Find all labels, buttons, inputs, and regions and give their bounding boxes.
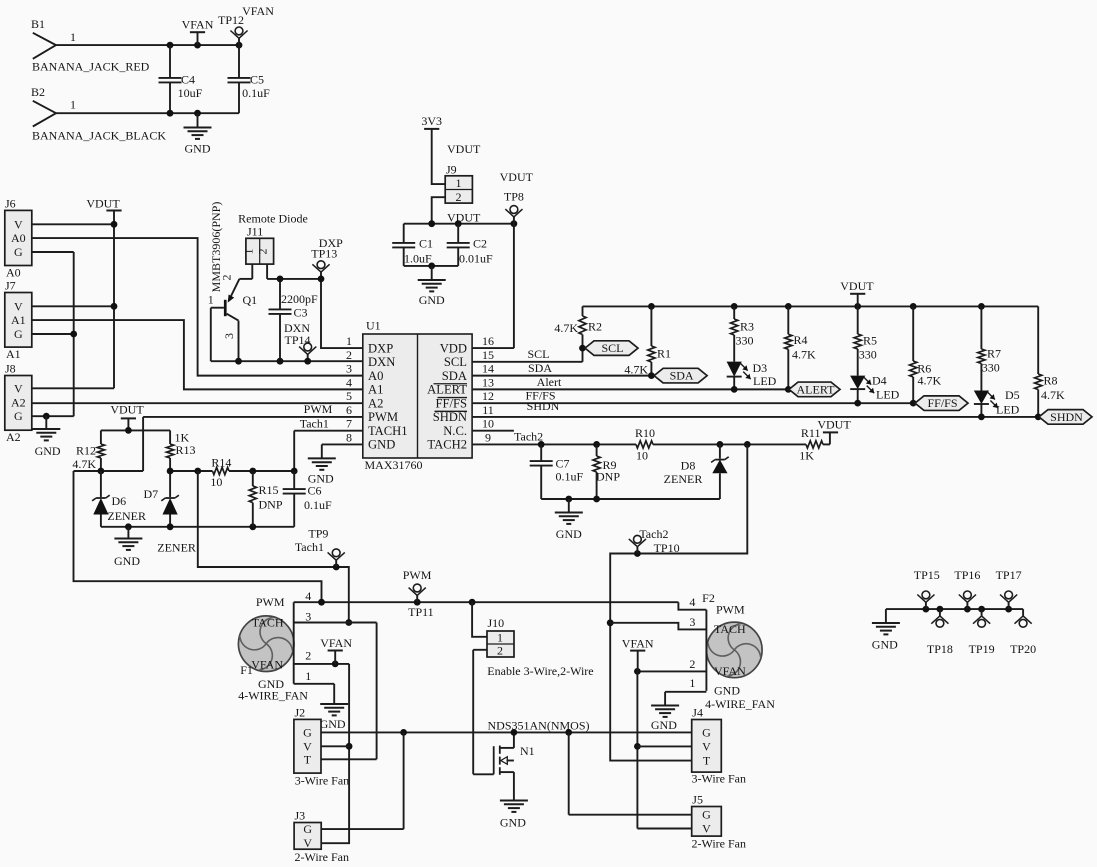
capacitor C3	[269, 279, 319, 361]
test point TP8	[500, 170, 534, 224]
svg-text:V: V	[702, 822, 711, 836]
svg-text:2: 2	[220, 275, 234, 281]
wire TACH2	[472, 429, 830, 448]
svg-text:VFAN: VFAN	[320, 636, 352, 650]
svg-text:G: G	[303, 822, 312, 836]
svg-text:G: G	[702, 808, 711, 822]
svg-text:TP16: TP16	[954, 568, 980, 582]
svg-text:BANANA_JACK_BLACK: BANANA_JACK_BLACK	[32, 129, 166, 143]
svg-text:3: 3	[222, 333, 236, 339]
svg-text:SDA: SDA	[442, 369, 467, 383]
resistor R5	[854, 306, 877, 375]
resistor R2	[554, 306, 602, 348]
svg-text:VFAN: VFAN	[182, 17, 214, 31]
wire Tach2 to TP10 F2 J4T	[607, 444, 748, 760]
svg-text:R1: R1	[657, 347, 671, 361]
svg-text:4.7K: 4.7K	[72, 457, 96, 471]
connector J10	[472, 602, 594, 678]
svg-text:1: 1	[456, 176, 462, 190]
connector J11	[242, 224, 274, 279]
svg-text:8: 8	[346, 430, 352, 444]
wire VDUT rail C1 C2 TP8	[404, 220, 518, 227]
svg-text:4.7K: 4.7K	[554, 321, 578, 335]
svg-text:11: 11	[482, 403, 494, 417]
svg-text:BANANA_JACK_RED: BANANA_JACK_RED	[32, 60, 150, 74]
svg-text:R5: R5	[863, 334, 877, 348]
svg-text:4: 4	[689, 595, 695, 609]
wire ALERT	[472, 375, 792, 393]
svg-text:7: 7	[346, 417, 352, 431]
resistor R11	[799, 426, 823, 463]
connector J6	[5, 197, 32, 280]
svg-text:B2: B2	[31, 85, 45, 99]
connector J2	[294, 705, 349, 787]
svg-text:GND: GND	[35, 444, 61, 458]
wire PWM to fans	[74, 471, 707, 610]
resistor R10	[635, 426, 655, 463]
svg-text:GND: GND	[872, 638, 898, 652]
connector J9	[445, 142, 481, 204]
wire FFFS	[472, 389, 916, 407]
svg-text:D7: D7	[144, 487, 159, 501]
capacitor C6	[283, 471, 332, 527]
svg-text:GND: GND	[308, 472, 334, 486]
svg-text:2: 2	[305, 649, 311, 663]
svg-text:R3: R3	[740, 320, 754, 334]
svg-text:1: 1	[497, 630, 503, 644]
label MMBT3906(PNP)	[209, 202, 223, 293]
svg-text:G: G	[14, 327, 23, 341]
svg-text:4-WIRE_FAN: 4-WIRE_FAN	[705, 697, 775, 711]
test point TP11	[403, 568, 434, 619]
svg-text:VDUT: VDUT	[840, 279, 874, 293]
wire G bus	[32, 252, 77, 420]
svg-text:14: 14	[482, 362, 494, 376]
svg-text:LED: LED	[996, 403, 1020, 417]
svg-text:V: V	[14, 217, 23, 231]
svg-text:2: 2	[497, 643, 503, 657]
svg-text:A0: A0	[11, 231, 26, 245]
svg-text:R7: R7	[987, 347, 1001, 361]
svg-text:Enable 3-Wire,2-Wire: Enable 3-Wire,2-Wire	[487, 664, 593, 678]
wire TP9 to fan	[198, 471, 352, 626]
svg-text:C2: C2	[473, 237, 487, 251]
LED D4	[850, 374, 900, 404]
svg-text:N1: N1	[520, 744, 535, 758]
svg-text:SHDN: SHDN	[1050, 410, 1083, 424]
svg-text:R14: R14	[211, 455, 231, 469]
svg-text:R13: R13	[176, 443, 196, 457]
net flag SHDN	[1039, 410, 1092, 425]
svg-text:C3: C3	[294, 306, 308, 320]
capacitor C4	[159, 45, 203, 113]
label Remote Diode	[238, 212, 308, 226]
svg-text:4.7K: 4.7K	[1041, 388, 1065, 402]
svg-text:9: 9	[485, 430, 491, 444]
capacitor C5	[228, 45, 271, 113]
resistor R14	[167, 455, 295, 489]
svg-text:VDUT: VDUT	[817, 418, 851, 432]
svg-text:TP14: TP14	[284, 333, 310, 347]
svg-text:Tach1: Tach1	[300, 417, 329, 431]
wire F1 GND	[294, 684, 335, 704]
connector J5	[692, 793, 747, 851]
transistor N1 NMOS	[473, 650, 589, 800]
power flag VDUT left	[86, 197, 121, 211]
svg-text:330: 330	[859, 348, 877, 362]
svg-text:2-Wire Fan: 2-Wire Fan	[295, 850, 350, 864]
svg-text:C1: C1	[419, 237, 433, 251]
svg-text:J6: J6	[5, 197, 16, 211]
svg-text:A1: A1	[11, 313, 26, 327]
svg-text:D4: D4	[872, 374, 887, 388]
svg-text:J2: J2	[295, 705, 306, 719]
svg-text:GND: GND	[556, 527, 582, 541]
svg-text:1: 1	[346, 334, 352, 348]
svg-text:TACH2: TACH2	[427, 438, 467, 452]
svg-text:G: G	[14, 245, 23, 259]
svg-text:SDA: SDA	[528, 361, 552, 375]
test point TP18	[927, 609, 953, 656]
svg-text:R4: R4	[794, 333, 808, 347]
svg-text:C6: C6	[308, 484, 322, 498]
svg-text:2: 2	[456, 190, 462, 204]
svg-text:SDA: SDA	[670, 369, 694, 383]
power flag 3V3	[421, 114, 442, 129]
resistor R13	[167, 430, 196, 471]
svg-text:TP9: TP9	[308, 527, 328, 541]
svg-text:VDUT: VDUT	[447, 210, 481, 224]
svg-text:TP15: TP15	[914, 568, 940, 582]
svg-text:LED: LED	[753, 374, 777, 388]
svg-text:1: 1	[70, 98, 76, 112]
net flag SDA	[654, 368, 707, 383]
svg-text:D6: D6	[112, 494, 127, 508]
svg-text:4.7K: 4.7K	[792, 347, 816, 361]
svg-text:0.1uF: 0.1uF	[556, 470, 584, 484]
svg-text:12: 12	[482, 389, 494, 403]
wire B1 to VFAN rail	[56, 42, 242, 49]
svg-text:GND: GND	[651, 718, 677, 732]
svg-text:SCL: SCL	[444, 355, 467, 369]
wire Tach2 to F2 pin3	[610, 623, 706, 630]
svg-text:6: 6	[346, 403, 352, 417]
svg-text:Tach1: Tach1	[295, 540, 324, 554]
svg-text:D8: D8	[681, 459, 696, 473]
svg-text:U1: U1	[366, 319, 381, 333]
svg-text:DNP: DNP	[596, 470, 620, 484]
wire VDUT to R12 R13	[101, 427, 170, 434]
svg-text:TP18: TP18	[927, 642, 953, 656]
svg-text:10: 10	[482, 417, 494, 431]
svg-text:ZENER: ZENER	[107, 509, 146, 523]
svg-text:A1: A1	[6, 347, 21, 361]
ground GND below C1 C2	[418, 266, 446, 307]
wire TACH1	[291, 417, 363, 475]
svg-text:4.7K: 4.7K	[918, 373, 942, 387]
svg-text:Tach2: Tach2	[639, 527, 668, 541]
svg-text:MAX31760: MAX31760	[365, 458, 423, 472]
svg-text:Q1: Q1	[243, 293, 258, 307]
fan F1	[238, 589, 311, 703]
svg-text:330: 330	[982, 361, 1000, 375]
connector J7	[5, 279, 32, 362]
svg-text:1: 1	[70, 30, 76, 44]
svg-text:5: 5	[346, 389, 352, 403]
svg-text:VDD: VDD	[440, 341, 467, 355]
connector B1 banana jack	[31, 17, 150, 74]
test point TP20	[1010, 609, 1036, 656]
svg-text:R2: R2	[588, 320, 602, 334]
label VDUT above rail	[447, 210, 481, 224]
diode D8 ZENER	[664, 444, 729, 499]
svg-text:C5: C5	[250, 73, 264, 87]
svg-text:R15: R15	[259, 483, 279, 497]
ground GND TP bus	[872, 623, 900, 652]
svg-text:TACH: TACH	[714, 622, 746, 636]
wire J3 G	[321, 732, 403, 829]
transistor Q1	[208, 275, 257, 362]
ground GND N1	[500, 801, 528, 830]
svg-text:TP12: TP12	[218, 13, 244, 27]
test point TP12	[218, 4, 274, 45]
svg-text:GND: GND	[368, 438, 395, 452]
svg-text:SHDN: SHDN	[433, 410, 467, 424]
wire VDUT to V pins	[32, 211, 118, 389]
svg-text:DXN: DXN	[368, 355, 395, 369]
test point TP13	[311, 236, 343, 279]
svg-text:2-Wire Fan: 2-Wire Fan	[692, 837, 747, 851]
resistor R12	[72, 430, 104, 471]
svg-text:10: 10	[210, 475, 222, 489]
svg-text:4: 4	[305, 589, 311, 603]
svg-text:0.1uF: 0.1uF	[242, 86, 270, 100]
svg-text:1.0uF: 1.0uF	[404, 251, 432, 265]
wire C7 R9 D8 ground	[541, 496, 720, 503]
svg-text:VDUT: VDUT	[86, 197, 120, 211]
ground GND below D6	[114, 527, 142, 568]
svg-text:A2: A2	[11, 395, 26, 409]
svg-text:V: V	[303, 739, 312, 753]
svg-text:ZENER: ZENER	[157, 541, 196, 555]
svg-text:10: 10	[636, 449, 648, 463]
svg-text:VFAN: VFAN	[242, 4, 274, 18]
svg-text:J9: J9	[446, 163, 457, 177]
ground GND below C4 C5	[184, 113, 212, 155]
fan F2	[689, 591, 775, 711]
wire B2 to C5	[56, 110, 239, 117]
svg-text:VFAN: VFAN	[622, 637, 654, 651]
wire VDUT rail pullups	[583, 303, 1039, 310]
svg-text:4.7K: 4.7K	[624, 363, 648, 377]
svg-text:1K: 1K	[799, 449, 814, 463]
capacitor C7	[530, 444, 584, 499]
svg-text:1: 1	[305, 669, 311, 683]
net flag ALERT	[789, 382, 840, 397]
svg-text:2: 2	[346, 348, 352, 362]
svg-text:A1: A1	[368, 383, 383, 397]
svg-text:A0: A0	[6, 266, 21, 280]
ground GND below J8	[32, 416, 61, 458]
svg-text:R8: R8	[1044, 374, 1058, 388]
svg-text:D3: D3	[753, 361, 768, 375]
power flag VFAN F2	[622, 637, 654, 672]
svg-text:PWM: PWM	[304, 402, 333, 416]
svg-text:1: 1	[208, 293, 214, 307]
svg-text:FF/FS: FF/FS	[435, 396, 467, 410]
svg-text:NDS351AN(NMOS): NDS351AN(NMOS)	[488, 719, 590, 733]
wire J9 pin2 to VDUT rail	[432, 197, 446, 224]
svg-text:VFAN: VFAN	[714, 664, 746, 678]
svg-text:PWM: PWM	[716, 602, 745, 616]
resistor R4	[785, 306, 816, 389]
svg-text:J8: J8	[5, 362, 16, 376]
svg-text:FF/FS: FF/FS	[927, 396, 957, 410]
svg-text:J11: J11	[247, 224, 263, 238]
svg-text:3: 3	[346, 362, 352, 376]
svg-text:C7: C7	[556, 457, 570, 471]
resistor R7	[978, 306, 1001, 390]
svg-text:330: 330	[736, 334, 754, 348]
wire SDA	[472, 361, 655, 379]
wire NC stub	[472, 430, 514, 432]
svg-text:2: 2	[689, 657, 695, 671]
wire F1 VFAN	[294, 661, 349, 668]
svg-text:J3: J3	[295, 809, 306, 823]
test point TP10	[629, 527, 680, 555]
svg-text:V: V	[14, 299, 23, 313]
svg-text:1: 1	[689, 676, 695, 690]
test point TP9	[295, 527, 345, 568]
wire A1	[32, 320, 363, 389]
ground GND U1 pin8	[308, 444, 363, 485]
svg-text:G: G	[702, 725, 711, 739]
connector J4	[692, 706, 747, 786]
wire C1 C2 ground	[404, 263, 459, 270]
svg-text:GND: GND	[500, 816, 526, 830]
wire SCL	[472, 345, 586, 362]
svg-text:TP8: TP8	[504, 190, 524, 204]
svg-text:TP10: TP10	[654, 541, 680, 555]
test point TP17	[996, 568, 1022, 609]
svg-text:GND: GND	[185, 142, 211, 156]
connector J8	[5, 362, 32, 445]
net flag SCL	[585, 341, 638, 356]
wire VFAN to J2 J3	[321, 664, 353, 843]
svg-text:13: 13	[482, 375, 494, 389]
svg-text:VDUT: VDUT	[110, 403, 144, 417]
svg-text:1: 1	[242, 249, 256, 255]
svg-text:J4: J4	[692, 706, 703, 720]
svg-text:T: T	[703, 754, 711, 768]
test point TP19	[969, 609, 995, 656]
power flag VDUT R12	[110, 403, 144, 431]
svg-text:16: 16	[482, 334, 494, 348]
svg-text:VDUT: VDUT	[500, 170, 534, 184]
svg-text:VDUT: VDUT	[447, 142, 481, 156]
power flag VDUT R11	[817, 418, 851, 433]
power flag VFAN	[182, 17, 214, 45]
svg-text:J7: J7	[5, 279, 16, 293]
wire D6 D7 R15 C6 ground	[101, 523, 294, 530]
svg-text:G: G	[14, 409, 23, 423]
wire fan ground rail	[321, 729, 692, 736]
svg-text:R12: R12	[76, 444, 96, 458]
svg-text:N.C.: N.C.	[443, 424, 467, 438]
test point TP16	[954, 568, 980, 609]
wire F1 tach to J2 T	[294, 623, 377, 760]
svg-text:4: 4	[346, 375, 352, 389]
svg-text:A2: A2	[368, 396, 383, 410]
svg-text:Alert: Alert	[537, 375, 562, 389]
wire DXN	[211, 358, 363, 365]
wire VFAN to J4 J5	[634, 671, 692, 828]
svg-text:LED: LED	[876, 388, 900, 402]
test point TP14	[284, 321, 316, 361]
resistor R8	[1035, 306, 1065, 417]
svg-text:G: G	[303, 725, 312, 739]
wire A0	[32, 238, 363, 376]
svg-text:D5: D5	[1005, 388, 1020, 402]
svg-text:J10: J10	[488, 616, 505, 630]
svg-text:PWM: PWM	[403, 568, 432, 582]
wire F2 VFAN pin2	[634, 668, 706, 675]
LED D3	[727, 361, 777, 389]
svg-text:J5: J5	[692, 793, 703, 807]
net flag FFFS	[915, 396, 968, 411]
svg-text:TP19: TP19	[969, 642, 995, 656]
svg-text:ZENER: ZENER	[664, 472, 703, 486]
svg-text:SCL: SCL	[601, 341, 623, 355]
power flag VDUT rail	[840, 279, 874, 306]
svg-text:GND: GND	[714, 684, 740, 698]
ground GND F2 pin1	[651, 706, 679, 733]
wire J5 G	[569, 732, 692, 814]
svg-text:2: 2	[255, 249, 269, 255]
svg-text:0.01uF: 0.01uF	[459, 251, 493, 265]
connector J3	[294, 809, 349, 864]
capacitor C2	[447, 224, 493, 266]
diode D7 ZENER	[144, 471, 196, 555]
svg-text:R10: R10	[635, 426, 655, 440]
svg-text:B1: B1	[31, 17, 45, 31]
LED D5	[974, 388, 1020, 417]
svg-text:TP20: TP20	[1010, 642, 1036, 656]
svg-text:TACH: TACH	[252, 616, 284, 630]
wire TP ground bus	[886, 606, 1023, 623]
svg-text:2200pF: 2200pF	[281, 292, 318, 306]
svg-text:C4: C4	[181, 73, 195, 87]
svg-text:3: 3	[689, 615, 695, 629]
wire VDD to pin16	[472, 224, 514, 348]
svg-text:DXP: DXP	[319, 236, 343, 250]
svg-text:PWM: PWM	[256, 595, 285, 609]
wire SHDN	[472, 399, 1042, 420]
svg-text:TP17: TP17	[996, 568, 1022, 582]
wire A2	[32, 402, 363, 404]
svg-text:10uF: 10uF	[178, 86, 203, 100]
svg-text:3: 3	[305, 609, 311, 623]
capacitor C1	[392, 224, 433, 266]
svg-text:PWM: PWM	[368, 410, 398, 424]
svg-text:F1: F1	[240, 663, 253, 677]
svg-text:A0: A0	[368, 369, 383, 383]
wire DXP	[267, 276, 363, 349]
wire 3V3 to J9 pin1	[432, 129, 446, 184]
svg-text:3V3: 3V3	[421, 114, 442, 128]
wire F2 GND	[665, 692, 706, 705]
svg-text:DXN: DXN	[284, 321, 310, 335]
